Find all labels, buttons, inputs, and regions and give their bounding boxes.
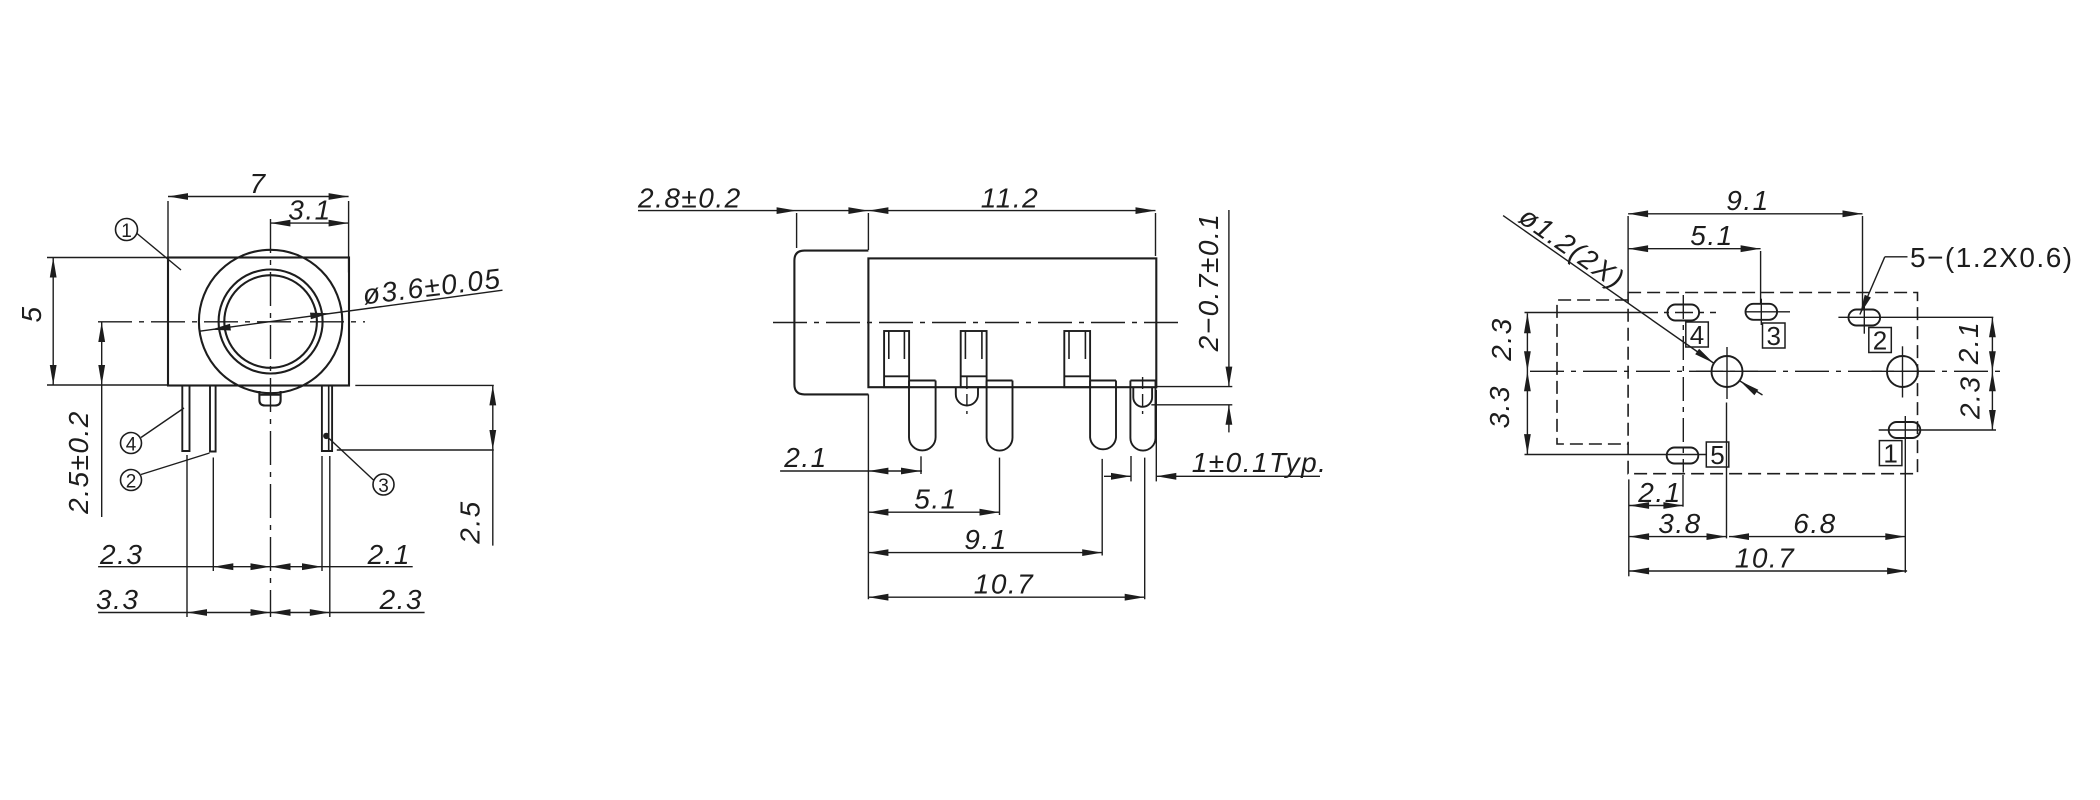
balloon 2 [121, 470, 142, 491]
front view: outer barrel circle [199, 250, 342, 393]
front view: horizontal center line [98, 321, 365, 323]
dimension 5.1 (pcb) [1628, 248, 1761, 250]
side view: leg4 inner slot [1133, 387, 1152, 407]
side view: contact clip 3 [1064, 331, 1090, 387]
svg-text:3.3: 3.3 [96, 584, 139, 615]
side view: solder leg 3 [1090, 381, 1116, 450]
side view: main body [868, 258, 1156, 387]
svg-text:2.1: 2.1 [783, 442, 827, 473]
svg-text:3: 3 [1766, 321, 1780, 351]
front view: bushing ring inner circle (hole ø3.6) [224, 275, 317, 368]
svg-text:9.1: 9.1 [1726, 185, 1769, 216]
dimension 2.1 / 2.3 (pcb right) [1991, 317, 1993, 430]
pcb layout: hole circle 1 crosshair [1696, 370, 1758, 372]
svg-text:1: 1 [1883, 439, 1897, 469]
dimension 2.1 (pcb bottom) [1628, 479, 1630, 576]
svg-text:2.8±0.2: 2.8±0.2 [637, 183, 742, 214]
svg-text:3.3: 3.3 [1484, 385, 1515, 428]
svg-text:2.3: 2.3 [1486, 317, 1517, 361]
svg-text:5: 5 [1710, 440, 1724, 470]
svg-text:2.1: 2.1 [1637, 477, 1681, 508]
side view: solder leg 1 [909, 381, 936, 451]
side view: solder leg 2 [987, 381, 1013, 451]
dimension 5-(1.2X0.6) leader [1885, 256, 1908, 258]
svg-text:11.2: 11.2 [981, 183, 1039, 214]
svg-text:5−(1.2X0.6): 5−(1.2X0.6) [1910, 242, 2074, 273]
svg-text:4: 4 [1690, 320, 1704, 350]
front view: bushing ring outer circle [219, 270, 323, 374]
dimension 1±0.1Typ. [1104, 475, 1131, 477]
dimension 7 (top width) [168, 196, 349, 198]
dimension 10.7 (pcb bottom) [1629, 570, 1907, 572]
dimension ø3.6±0.05 leader [200, 290, 503, 331]
side view: solder leg 4 [1130, 381, 1155, 451]
svg-text:2.1: 2.1 [367, 539, 411, 570]
pcb layout: vertical center line col 4/5 [1682, 295, 1684, 473]
svg-text:6.8: 6.8 [1793, 508, 1836, 539]
svg-text:2.3: 2.3 [1955, 376, 1986, 420]
dimension 6.8 (pcb bottom) [1729, 536, 1905, 538]
svg-text:5.1: 5.1 [1690, 220, 1733, 251]
pcb layout: hole circle 2 crosshair [1872, 370, 1934, 372]
svg-text:9.1: 9.1 [964, 524, 1007, 555]
svg-text:5: 5 [16, 305, 47, 322]
side view: left reference extension line [867, 394, 869, 599]
dimension 3.8 (pcb bottom) [1726, 403, 1728, 539]
front view: bottom center nub [259, 391, 280, 406]
dimension 10.7 (side view) [868, 596, 1144, 598]
pcb layout: pin number box 5 [1706, 442, 1729, 467]
pcb layout: hole circle 1 [1712, 356, 1743, 387]
front view: pin 4 leg [182, 386, 189, 451]
svg-text:10.7: 10.7 [1735, 543, 1796, 574]
balloon 3 with leader dot [373, 474, 394, 495]
svg-text:2.1: 2.1 [1953, 321, 1984, 365]
dimension 2.1 (side view) [780, 470, 922, 472]
dimension 2.3 / 3.3 (pcb left) [1526, 313, 1528, 454]
side view: barrel (bushing) [794, 251, 868, 395]
side view: center line [773, 322, 1178, 324]
svg-text:5.1: 5.1 [914, 484, 957, 515]
svg-text:2: 2 [126, 472, 137, 493]
svg-text:3.8: 3.8 [1658, 508, 1701, 539]
svg-text:1: 1 [121, 221, 132, 242]
front view: vertical center line [270, 219, 272, 617]
dimension row 3.3 / 2.3 (front view) [98, 612, 425, 614]
dimension 5 (left height) [52, 258, 54, 386]
side view: contact clip 2 [961, 331, 987, 387]
pcb layout: pin number box 3 [1763, 323, 1786, 348]
svg-text:2.5±0.2: 2.5±0.2 [63, 410, 94, 515]
svg-text:1±0.1Typ.: 1±0.1Typ. [1192, 447, 1328, 478]
dimension 2.8±0.2 and 11.2 (top) [638, 210, 1156, 212]
dimension 3.1 [270, 222, 348, 224]
svg-text:2−0.7±0.1: 2−0.7±0.1 [1193, 213, 1224, 353]
dimension 9.1 (pcb) [1628, 213, 1862, 215]
pcb layout: pin number box 4 [1686, 322, 1709, 347]
pcb layout: body outline dashed [1628, 293, 1917, 474]
front view: pin 3 leg [322, 386, 332, 451]
pcb layout: pin number box 2 [1869, 328, 1892, 353]
svg-text:10.7: 10.7 [974, 569, 1035, 600]
pcb layout: hole circle 2 [1887, 356, 1918, 387]
side view: center switch stub [956, 387, 978, 405]
dimension 2.5 (right pin protrusion) [355, 384, 494, 386]
dimension 2-0.7±0.1 (right) [1157, 386, 1232, 388]
pcb layout: pad 1 [1889, 422, 1921, 438]
svg-text:7: 7 [249, 168, 266, 199]
balloon 1 [116, 219, 138, 241]
svg-text:3: 3 [378, 476, 389, 497]
svg-text:4: 4 [126, 435, 137, 456]
dimension row 2.3 / 2.1 (front view) [98, 566, 413, 568]
pcb layout: barrel outline dashed [1557, 300, 1628, 444]
pcb layout: pad 5 [1667, 448, 1699, 464]
dimension 9.1 (side view) [868, 552, 1102, 554]
svg-text:3.1: 3.1 [288, 195, 331, 226]
svg-text:2.5: 2.5 [455, 500, 486, 544]
pcb layout: pin number box 1 [1879, 441, 1902, 466]
pcb layout: horizontal center line [1530, 370, 2000, 372]
pcb layout: pad 2 [1849, 310, 1881, 326]
svg-text:2.3: 2.3 [99, 539, 143, 570]
dimension 5.1 (side view) [868, 511, 1000, 513]
svg-text:2: 2 [1873, 326, 1887, 356]
dimension ø1.2(2X) leader [1503, 216, 1713, 363]
side view: contact clip 1 [884, 331, 909, 387]
pcb layout: pad 3 [1746, 304, 1778, 320]
dimension 2.5±0.2 (pin length) [101, 322, 103, 517]
front view: jack body outline [168, 258, 349, 386]
pcb layout: pad 4 [1668, 305, 1700, 321]
balloon 4 [121, 433, 142, 454]
svg-text:2.3: 2.3 [379, 584, 423, 615]
front view: pin 2 leg [210, 386, 216, 452]
